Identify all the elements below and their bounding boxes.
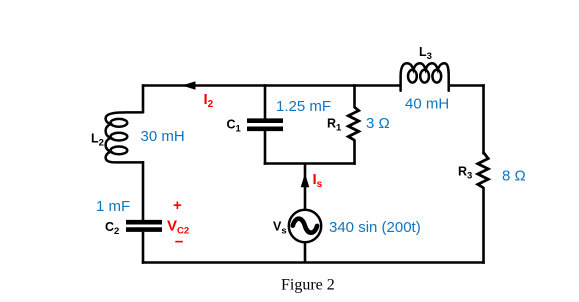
svg-text:−: − xyxy=(175,234,184,251)
capacitor C1 plate bottom xyxy=(247,127,283,132)
svg-text:1 mF: 1 mF xyxy=(96,198,130,215)
wire C1 branch upper xyxy=(264,84,267,119)
wire left vertical mid (L2 to C2) xyxy=(142,161,145,220)
svg-text:+: + xyxy=(173,197,182,214)
svg-text:C2: C2 xyxy=(105,220,119,237)
svg-text:340 sin (200t): 340 sin (200t) xyxy=(329,219,421,236)
wire left vertical top (corner to L2) xyxy=(142,84,145,113)
svg-text:8 Ω: 8 Ω xyxy=(502,168,526,185)
svg-text:R1: R1 xyxy=(327,117,342,134)
source Vs circle xyxy=(289,210,321,242)
svg-text:Figure 2: Figure 2 xyxy=(281,277,335,294)
svg-text:40 mH: 40 mH xyxy=(405,96,449,113)
svg-text:Is: Is xyxy=(313,171,323,190)
inductor L3 xyxy=(401,63,449,90)
wire C1 branch lower xyxy=(264,131,267,165)
svg-text:30 mH: 30 mH xyxy=(141,128,185,145)
current arrow Is xyxy=(301,173,310,187)
resistor R1 xyxy=(348,107,358,140)
wire R1 branch lower xyxy=(353,140,356,165)
svg-text:Vs: Vs xyxy=(273,220,287,237)
wire top left-to-L3 xyxy=(143,84,401,87)
wire source branch upper xyxy=(304,164,307,212)
resistor R3 xyxy=(478,153,488,188)
wire bottom xyxy=(142,261,485,264)
svg-text:L2: L2 xyxy=(91,132,104,149)
source Vs sine wave xyxy=(293,219,317,233)
svg-text:I2: I2 xyxy=(204,91,214,110)
wire source branch lower xyxy=(304,242,307,263)
svg-text:3 Ω: 3 Ω xyxy=(366,115,390,132)
wire left vertical bottom (C2 to bottom wire) xyxy=(142,232,145,264)
svg-text:R3: R3 xyxy=(458,165,472,182)
wire L3-to-right-corner xyxy=(450,84,485,87)
capacitor C2 plate top xyxy=(126,220,162,225)
wire right vertical lower xyxy=(482,187,485,264)
current arrow I2 xyxy=(182,81,196,90)
svg-text:1.25 mF: 1.25 mF xyxy=(276,98,331,115)
inductor L2 xyxy=(106,112,143,162)
capacitor C1 plate top xyxy=(247,118,283,123)
wire right vertical upper (to R3) xyxy=(482,84,485,154)
svg-text:L3: L3 xyxy=(419,45,432,62)
wire R1 branch upper xyxy=(353,84,356,108)
wire RC bottom xyxy=(264,162,356,165)
svg-text:C1: C1 xyxy=(227,118,242,135)
capacitor C2 plate bottom xyxy=(126,227,162,232)
